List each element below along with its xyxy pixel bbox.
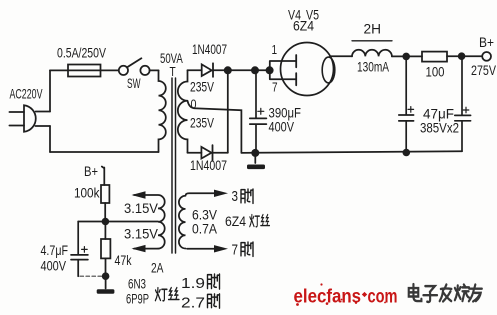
svg-text:1.9: 1.9 (181, 275, 205, 292)
svg-text:2A: 2A (151, 260, 164, 276)
svg-text:4.7μF: 4.7μF (41, 243, 69, 259)
svg-text:0.5A/250V: 0.5A/250V (57, 45, 107, 61)
svg-text:2H: 2H (364, 20, 381, 36)
svg-text:B+: B+ (479, 34, 494, 50)
svg-text:6Z4: 6Z4 (293, 18, 314, 34)
svg-text:3: 3 (232, 188, 239, 205)
svg-text:385Vx2: 385Vx2 (420, 119, 459, 135)
svg-text:235V: 235V (190, 115, 215, 131)
svg-text:T: T (170, 65, 176, 79)
svg-text:2.7: 2.7 (181, 295, 205, 312)
svg-text:3.15V: 3.15V (124, 201, 158, 217)
svg-text:AC220V: AC220V (10, 87, 43, 103)
svg-text:7: 7 (232, 241, 239, 258)
svg-text:7: 7 (272, 80, 278, 95)
svg-text:6Z4: 6Z4 (225, 213, 246, 229)
svg-text:6N3: 6N3 (128, 276, 146, 292)
svg-text:6P9P: 6P9P (126, 291, 149, 307)
svg-text:1: 1 (272, 43, 278, 58)
svg-text:SW: SW (127, 77, 141, 92)
svg-text:0.7A: 0.7A (192, 221, 217, 237)
svg-text:400V: 400V (269, 119, 295, 135)
svg-text:3.15V: 3.15V (124, 226, 158, 242)
svg-text:1N4007: 1N4007 (192, 41, 227, 57)
svg-text:com: com (368, 287, 398, 308)
svg-text:100: 100 (426, 63, 445, 79)
svg-text:47k: 47k (115, 253, 133, 269)
svg-text:275V: 275V (471, 63, 497, 79)
svg-text:130mA: 130mA (357, 59, 390, 75)
svg-text:100k: 100k (74, 185, 100, 201)
svg-text:400V: 400V (41, 258, 67, 274)
svg-text:B+: B+ (84, 164, 98, 179)
svg-text:0: 0 (191, 97, 197, 112)
svg-text:235V: 235V (190, 79, 215, 95)
svg-text:1N4007: 1N4007 (190, 158, 227, 174)
